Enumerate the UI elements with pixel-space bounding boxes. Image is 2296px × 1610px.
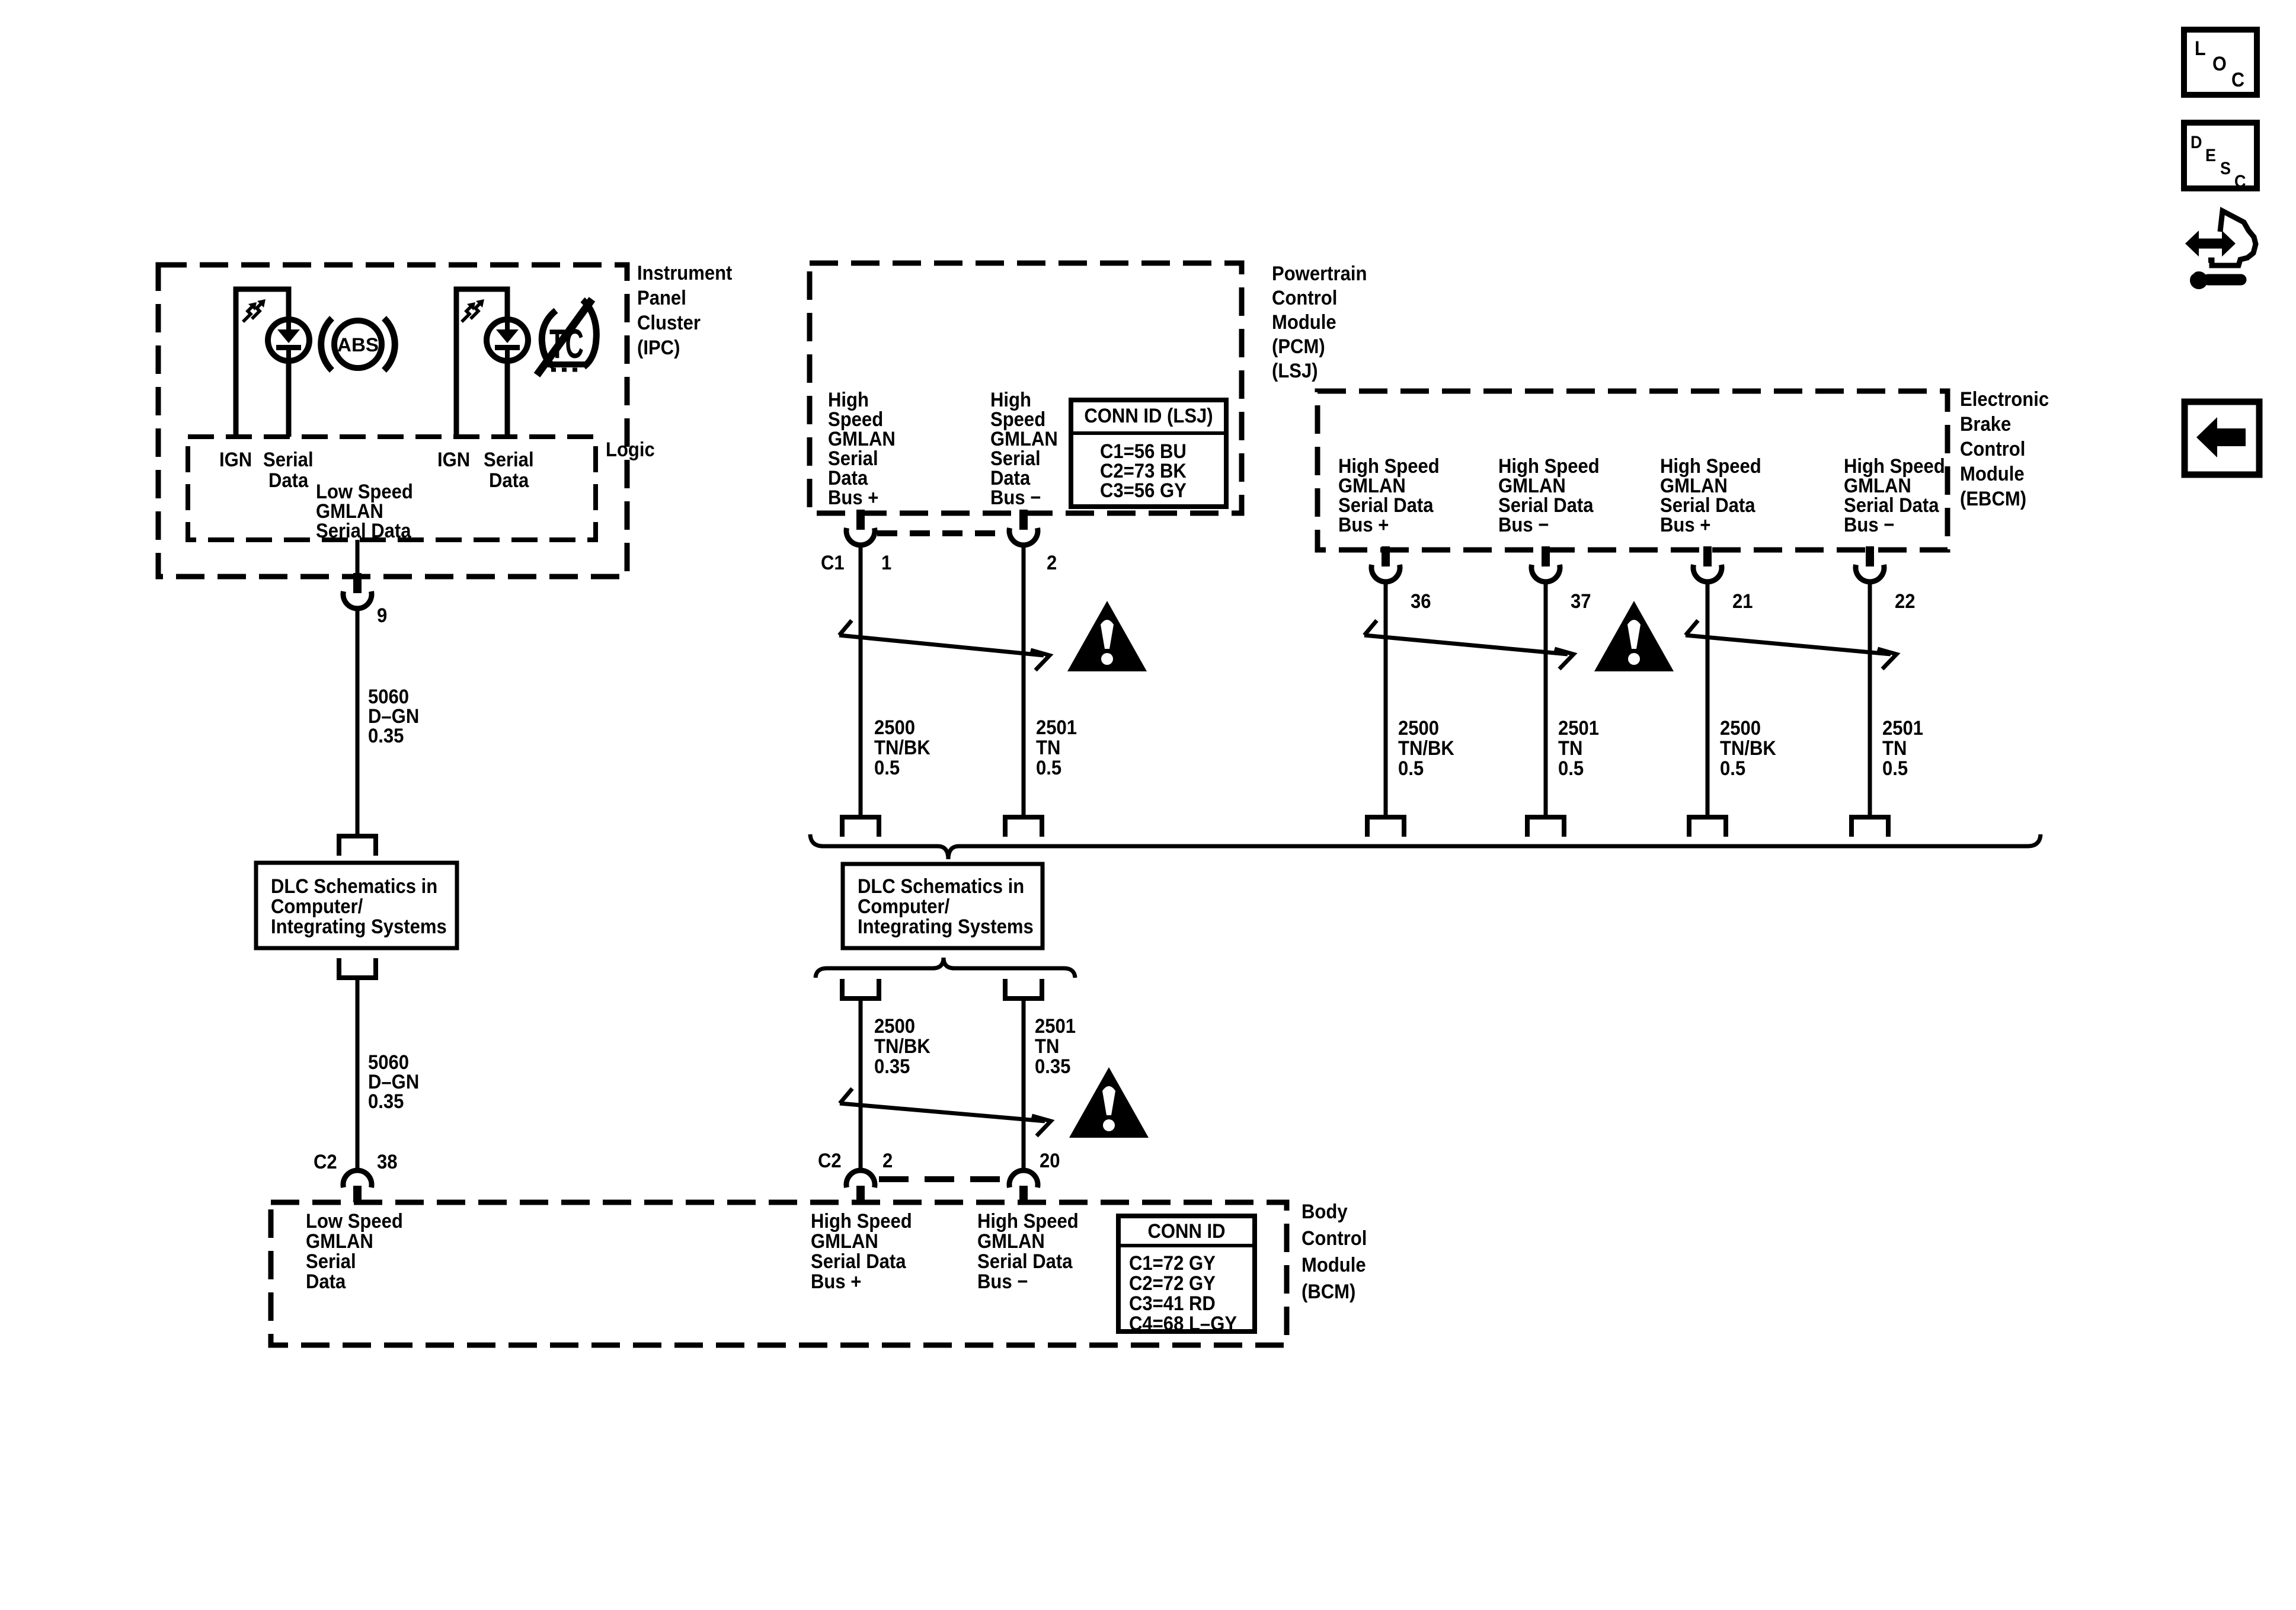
svg-text:Integrating Systems: Integrating Systems <box>858 914 1034 937</box>
svg-text:37: 37 <box>1571 589 1591 612</box>
svg-text:Control: Control <box>1272 286 1337 309</box>
svg-text:Cluster: Cluster <box>637 311 701 334</box>
svg-text:Bus −: Bus − <box>1498 513 1549 536</box>
svg-text:TC: TC <box>549 321 584 367</box>
svg-text:C: C <box>2234 172 2246 192</box>
svg-text:0.5: 0.5 <box>1882 756 1908 779</box>
svg-text:2: 2 <box>1047 550 1057 574</box>
svg-text:Serial: Serial <box>484 447 534 470</box>
svg-text:0.35: 0.35 <box>1035 1054 1070 1077</box>
svg-text:CONN ID (LSJ): CONN ID (LSJ) <box>1084 404 1213 427</box>
svg-text:C3=56 GY: C3=56 GY <box>1100 478 1187 501</box>
svg-text:(LSJ): (LSJ) <box>1272 359 1318 382</box>
svg-text:(BCM): (BCM) <box>1302 1279 1355 1302</box>
svg-text:IGN: IGN <box>437 447 470 470</box>
svg-text:Bus −: Bus − <box>1844 513 1894 536</box>
svg-text:Bus −: Bus − <box>990 485 1041 508</box>
svg-text:1: 1 <box>881 550 891 574</box>
svg-text:20: 20 <box>1040 1148 1060 1172</box>
svg-text:Brake: Brake <box>1960 412 2011 435</box>
svg-text:C4=68 L–GY: C4=68 L–GY <box>1129 1311 1237 1334</box>
svg-text:Logic: Logic <box>606 437 655 460</box>
svg-text:Bus +: Bus + <box>828 485 878 508</box>
svg-text:Control: Control <box>1302 1226 1367 1249</box>
svg-text:0.5: 0.5 <box>1720 756 1745 779</box>
svg-text:Bus +: Bus + <box>1660 513 1710 536</box>
svg-text:D: D <box>2191 133 2202 153</box>
svg-text:2: 2 <box>882 1148 893 1172</box>
svg-text:S: S <box>2220 159 2231 179</box>
svg-text:Serial: Serial <box>263 447 314 470</box>
svg-text:38: 38 <box>377 1150 398 1173</box>
svg-text:0.35: 0.35 <box>368 724 404 747</box>
svg-text:Powertrain: Powertrain <box>1272 261 1367 284</box>
svg-text:0.5: 0.5 <box>1558 756 1584 779</box>
svg-text:Integrating Systems: Integrating Systems <box>271 914 447 937</box>
svg-text:Module: Module <box>1302 1253 1366 1276</box>
svg-text:O: O <box>2212 53 2227 75</box>
svg-text:Data: Data <box>268 468 309 491</box>
svg-text:Serial Data: Serial Data <box>316 518 411 542</box>
svg-text:ABS: ABS <box>337 334 379 356</box>
svg-text:Bus −: Bus − <box>977 1269 1028 1292</box>
svg-text:Data: Data <box>306 1269 346 1292</box>
svg-text:0.5: 0.5 <box>1036 756 1061 779</box>
svg-text:36: 36 <box>1411 589 1431 612</box>
svg-text:(PCM): (PCM) <box>1272 334 1325 357</box>
svg-text:E: E <box>2205 146 2216 166</box>
svg-text:Electronic: Electronic <box>1960 387 2049 410</box>
svg-text:Control: Control <box>1960 437 2025 460</box>
svg-text:Instrument: Instrument <box>637 261 732 284</box>
svg-text:C: C <box>2231 69 2244 91</box>
svg-text:22: 22 <box>1895 589 1916 612</box>
svg-text:(IPC): (IPC) <box>637 335 680 359</box>
svg-text:C2: C2 <box>314 1150 337 1173</box>
svg-text:Module: Module <box>1272 310 1336 333</box>
svg-text:C1: C1 <box>821 550 845 574</box>
svg-text:Data: Data <box>489 468 529 491</box>
svg-text:C2: C2 <box>818 1148 842 1172</box>
svg-text:0.35: 0.35 <box>874 1054 910 1077</box>
svg-text:(EBCM): (EBCM) <box>1960 486 2026 510</box>
svg-text:Panel: Panel <box>637 286 686 309</box>
svg-text:Body: Body <box>1302 1199 1348 1222</box>
svg-text:21: 21 <box>1732 589 1753 612</box>
svg-text:CONN ID: CONN ID <box>1147 1219 1225 1242</box>
svg-text:0.35: 0.35 <box>368 1089 404 1112</box>
svg-text:Module: Module <box>1960 462 2025 485</box>
svg-text:0.5: 0.5 <box>874 756 900 779</box>
svg-text:L: L <box>2195 37 2206 60</box>
svg-text:Bus +: Bus + <box>1338 513 1389 536</box>
svg-text:0.5: 0.5 <box>1398 756 1424 779</box>
svg-text:Bus +: Bus + <box>811 1269 861 1292</box>
svg-text:IGN: IGN <box>219 447 252 470</box>
svg-text:9: 9 <box>377 603 387 626</box>
